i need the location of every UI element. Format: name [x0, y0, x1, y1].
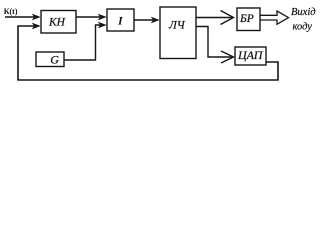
svg-text:К(t): К(t) [4, 7, 18, 16]
svg-text:Вихід: Вихід [291, 7, 316, 18]
svg-text:G: G [50, 53, 59, 67]
svg-text:коду: коду [293, 22, 313, 33]
svg-text:ЛЧ: ЛЧ [168, 19, 186, 31]
svg-text:КН: КН [48, 17, 66, 29]
svg-text:БР: БР [239, 13, 254, 25]
svg-text:ЦАП: ЦАП [237, 48, 264, 62]
